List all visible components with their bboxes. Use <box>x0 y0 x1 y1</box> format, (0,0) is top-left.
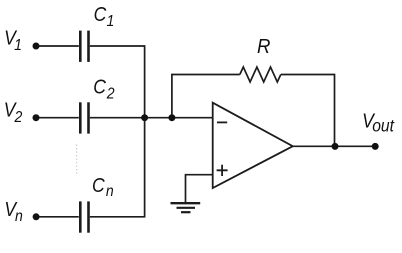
terminal dot V1 <box>33 43 40 50</box>
svg-text:n: n <box>106 182 114 200</box>
wire resistor to output node <box>281 75 335 147</box>
wire C1 to bus, bus vertical, bus to Cn <box>90 46 145 217</box>
svg-text:R: R <box>257 37 270 59</box>
wire feedback riser left <box>172 75 240 118</box>
label Cn <box>92 174 114 200</box>
terminal dot V2 <box>33 114 40 121</box>
label V2 <box>4 98 23 126</box>
capacitor Cn <box>80 201 88 232</box>
op-amp non-inverting input plus sign <box>217 165 228 176</box>
wire input V1 to C1 <box>36 45 79 47</box>
resistor R1 zigzag <box>240 67 281 82</box>
op-amp U1 triangle <box>213 103 293 188</box>
wire input V2 to C2 <box>36 117 79 119</box>
svg-text:1: 1 <box>107 12 115 30</box>
ellipsis dotted line between C2 and Cn <box>76 145 78 177</box>
label C1 <box>94 3 115 30</box>
label Vn <box>4 198 22 225</box>
wire C2 to op-amp inverting input <box>90 117 213 119</box>
terminal dot Vout <box>372 143 379 150</box>
junction node bus/inverting input <box>141 114 148 121</box>
svg-text:2: 2 <box>106 85 115 103</box>
label V1 <box>4 27 22 54</box>
ground <box>171 203 201 212</box>
svg-text:1: 1 <box>14 36 22 54</box>
svg-text:C: C <box>93 75 106 97</box>
label C2 <box>93 75 115 102</box>
label Vout <box>362 109 395 135</box>
wire non-inverting input to ground <box>186 175 213 203</box>
capacitor C1 <box>80 31 88 62</box>
svg-text:out: out <box>372 116 395 136</box>
capacitor C2 <box>80 102 88 133</box>
junction node output/feedback <box>332 143 339 150</box>
wire input Vn to Cn <box>36 216 79 218</box>
svg-text:C: C <box>94 3 107 25</box>
label R <box>257 37 270 59</box>
wire op-amp output <box>293 145 375 147</box>
terminal dot Vn <box>33 213 40 220</box>
op-amp inverting input minus sign <box>217 121 227 123</box>
svg-text:n: n <box>15 207 23 225</box>
svg-text:C: C <box>92 174 105 196</box>
junction node feedback tap <box>168 114 175 121</box>
svg-text:2: 2 <box>14 108 23 126</box>
